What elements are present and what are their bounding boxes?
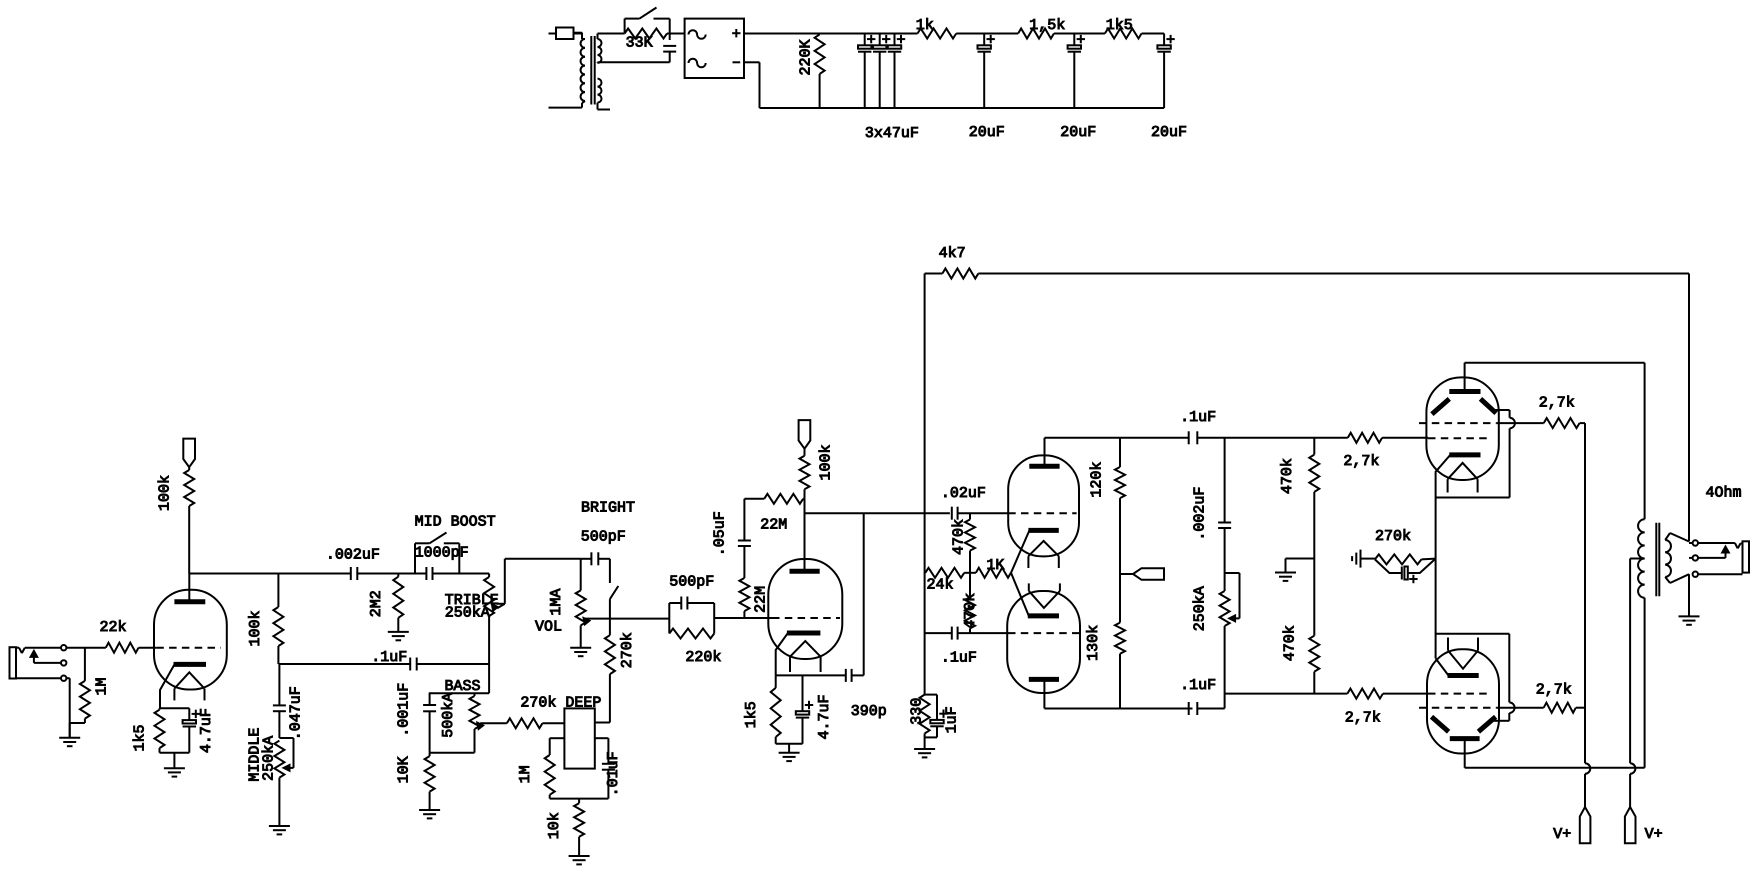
label .1uF upper out xyxy=(1180,409,1216,426)
V4 beam-cathode wire xyxy=(1436,497,1510,499)
label 130k xyxy=(1085,625,1102,661)
label 3x47uF xyxy=(865,125,919,142)
bass wiper xyxy=(476,721,507,731)
svg-text:1k5: 1k5 xyxy=(743,701,760,728)
svg-text:10k: 10k xyxy=(546,812,563,839)
wire rail B xyxy=(585,618,669,620)
treble wiper xyxy=(491,603,505,613)
svg-text:1M: 1M xyxy=(94,677,111,695)
svg-text:.1uF: .1uF xyxy=(1180,677,1216,694)
label 390p xyxy=(851,703,887,720)
label 250kA middle xyxy=(261,736,278,781)
V4 beam plates xyxy=(1432,399,1496,414)
resistor 1K PI xyxy=(970,568,1011,578)
label .002uF xyxy=(326,546,380,563)
capacitor .01uF deep xyxy=(602,738,615,798)
label .02uF xyxy=(941,485,986,502)
speaker jack tip wire xyxy=(1698,543,1743,548)
V5 heater xyxy=(1448,638,1478,669)
svg-text:V+: V+ xyxy=(1553,826,1571,843)
svg-text:2,7k: 2,7k xyxy=(1539,394,1575,411)
svg-text:500pF: 500pF xyxy=(581,529,626,546)
svg-text:2,7k: 2,7k xyxy=(1536,682,1572,699)
V2 heater xyxy=(790,641,821,672)
coupling network box xyxy=(669,603,714,634)
svg-text:1000pF: 1000pF xyxy=(415,544,469,561)
V2 grid xyxy=(772,617,840,619)
potentiometer BASS 500kA xyxy=(470,693,480,753)
ground VOL xyxy=(570,648,591,656)
label .1uF PI lower xyxy=(941,650,977,667)
input jack sleeve contact circle xyxy=(61,676,66,681)
resistor 220K bleeder xyxy=(815,34,825,109)
transformer secondary HT xyxy=(598,34,670,64)
label 220K xyxy=(798,39,815,75)
resistor 2,7k lower grid xyxy=(1347,689,1428,699)
V3a cathode xyxy=(1011,530,1059,572)
label MIDDLE xyxy=(246,728,263,782)
svg-text:500kA: 500kA xyxy=(440,693,457,738)
label 500pF bright xyxy=(581,529,626,546)
wire cathode net top xyxy=(160,707,190,709)
wire V2 cathode bottom xyxy=(776,743,803,745)
svg-text:470k: 470k xyxy=(950,519,967,555)
transformer secondary heater xyxy=(598,79,611,110)
svg-text:VOL: VOL xyxy=(535,618,562,635)
resistor 470k output xyxy=(1309,438,1319,559)
wire jack to ground xyxy=(1688,574,1690,616)
V5 beam wire xyxy=(1435,634,1515,721)
label 4Ohm xyxy=(1706,485,1742,502)
label 1k5 V2 xyxy=(743,701,760,728)
V1a heater xyxy=(174,672,204,700)
capacitor 270k bypass xyxy=(1375,559,1436,584)
wire upper grid rail right xyxy=(1197,437,1348,439)
resistor 1,5k xyxy=(1018,29,1054,39)
resistor 2,7k upper grid xyxy=(1348,433,1428,443)
input jack spring arrow xyxy=(29,649,61,663)
label .002uF presence xyxy=(1191,487,1208,541)
svg-text:4k7: 4k7 xyxy=(939,245,966,262)
wire sleeve to ground xyxy=(66,678,69,738)
label 1k5 xyxy=(1106,17,1133,34)
svg-text:2M2: 2M2 xyxy=(368,590,385,617)
svg-text:390p: 390p xyxy=(851,703,887,720)
resistor 33K xyxy=(625,29,667,39)
speaker jack sleeve wire xyxy=(1698,573,1743,575)
speaker jack ring circle xyxy=(1693,555,1698,560)
resistor 10K bass xyxy=(425,753,435,810)
svg-text:4Ohm: 4Ohm xyxy=(1706,485,1742,502)
resistor 270k output xyxy=(1375,554,1436,564)
wire deep bottom xyxy=(550,798,609,800)
capacitor .02uF xyxy=(952,507,958,520)
wire .1uF rail xyxy=(278,663,489,665)
svg-text:1MA: 1MA xyxy=(548,589,565,616)
capacitor 500pF coupling xyxy=(681,597,687,610)
capacitor .002uF presence xyxy=(1218,438,1231,573)
resistor 1M input xyxy=(70,648,90,738)
V+ flag left xyxy=(1580,807,1591,843)
capacitor 4.7uF V1a xyxy=(183,708,200,753)
V5 beam plates xyxy=(1432,717,1496,732)
pentode V5 envelope xyxy=(1427,649,1499,753)
wire lower out jog xyxy=(1197,694,1347,709)
ground 10K bass xyxy=(419,810,440,818)
label 22M vertical xyxy=(753,586,770,613)
wire screen bus xyxy=(1585,423,1590,807)
label 250kA treble xyxy=(445,605,490,622)
ground V1a cathode xyxy=(164,753,185,777)
svg-text:470k: 470k xyxy=(1282,625,1299,661)
svg-text:.05uF: .05uF xyxy=(711,511,728,556)
bright switch xyxy=(610,559,618,599)
speaker jack tip stub xyxy=(1689,542,1693,544)
V3a heater xyxy=(1028,541,1058,568)
wire bridge minus xyxy=(744,62,760,108)
fuse F1 xyxy=(549,28,584,40)
triode V3b envelope xyxy=(1007,591,1080,693)
capacitor .001uF xyxy=(423,693,436,753)
resistor 330 xyxy=(920,695,930,749)
wire 33K to bridge xyxy=(667,33,685,35)
label 24k xyxy=(927,577,954,594)
label 4k7 xyxy=(939,245,966,262)
label 2M2 xyxy=(368,590,385,617)
label 2,7k upper grid xyxy=(1343,453,1379,470)
V3b heater xyxy=(1029,583,1060,608)
svg-text:.002uF: .002uF xyxy=(326,546,380,563)
resistor 470k PI lower xyxy=(965,573,975,633)
resistor 1k5 xyxy=(1105,29,1142,39)
label 2,7k upper screen xyxy=(1539,394,1575,411)
capacitor 47uF c xyxy=(888,34,905,109)
V3a grid xyxy=(1008,512,1076,514)
V3b cathode xyxy=(1011,573,1059,616)
svg-text:BRIGHT: BRIGHT xyxy=(581,500,635,517)
label 250kA presence xyxy=(1191,586,1208,631)
capacitor 4.7uF V2 xyxy=(796,675,813,743)
transformer core xyxy=(591,36,594,105)
svg-text:22k: 22k xyxy=(100,619,127,636)
svg-text:1k5: 1k5 xyxy=(1106,17,1133,34)
svg-text:470k: 470k xyxy=(1279,458,1296,494)
wire to 20uF b xyxy=(1054,33,1105,35)
ground PI tail xyxy=(914,749,935,757)
svg-text:1M: 1M xyxy=(517,765,534,783)
resistor 270k bright leg xyxy=(605,599,615,722)
resistor 270k deep xyxy=(507,718,565,728)
wire V4 plate rail xyxy=(1465,363,1645,520)
V+ flag right xyxy=(1625,807,1636,843)
label 1K PI xyxy=(986,557,1004,574)
capacitor 390p xyxy=(846,669,852,682)
label VOL xyxy=(535,618,562,635)
capacitor 47uF b xyxy=(873,34,890,109)
wire bass bottom xyxy=(430,752,475,754)
V4 control grid xyxy=(1428,437,1492,439)
wire NFB top rail xyxy=(978,273,1689,275)
capacitor .1uF lower out xyxy=(1189,702,1198,715)
svg-text:.001uF: .001uF xyxy=(395,683,412,737)
svg-text:250kA: 250kA xyxy=(261,736,278,781)
input jack sleeve wire xyxy=(16,677,61,679)
svg-text:V+: V+ xyxy=(1645,826,1663,843)
label 4.7uF V2 xyxy=(816,694,833,739)
label 20uF a xyxy=(969,124,1005,141)
capacitor .05uF xyxy=(738,499,751,578)
label 22k xyxy=(100,619,127,636)
capacitor .002uF xyxy=(351,567,358,580)
capacitor 20uF a xyxy=(978,34,995,109)
resistor 2,7k lower screen xyxy=(1496,703,1585,713)
capacitor .1uF PI lower xyxy=(952,627,958,640)
wire PI upper plate rail xyxy=(1045,437,1189,439)
label 100k V1a xyxy=(157,475,174,511)
wire NFB down xyxy=(1688,274,1690,542)
label 20uF b xyxy=(1060,124,1096,141)
wire 390p horizontal xyxy=(776,674,864,676)
capacitor .047uF xyxy=(273,664,286,738)
label 270k DEEP xyxy=(520,694,601,711)
triode V1a envelope xyxy=(154,590,227,690)
V5 control grid xyxy=(1428,693,1492,695)
input jack tip wire xyxy=(16,648,61,653)
potentiometer 250kA presence xyxy=(1220,573,1240,694)
resistor 24k xyxy=(925,568,970,578)
label 500kA xyxy=(440,693,457,738)
wire deep inner left xyxy=(550,737,565,739)
resistor 22M horizontal xyxy=(744,494,804,504)
speaker jack sleeve circle xyxy=(1693,572,1698,577)
svg-text:22M: 22M xyxy=(753,586,770,613)
svg-text:2,7k: 2,7k xyxy=(1345,710,1381,727)
label 500pF coupling xyxy=(669,574,714,591)
mains input wire L xyxy=(549,33,557,35)
triode V3a envelope xyxy=(1008,455,1079,556)
svg-text:.02uF: .02uF xyxy=(941,485,986,502)
V2 cathode xyxy=(776,633,821,675)
resistor 1M deep xyxy=(545,738,555,798)
wire deep inner right xyxy=(595,737,609,739)
label 33K xyxy=(626,35,653,52)
wire rail A to treble xyxy=(433,573,490,575)
label BRIGHT xyxy=(581,500,635,517)
ground 470k xyxy=(1275,573,1296,581)
output transformer primary xyxy=(1638,519,1645,597)
label 22M xyxy=(760,516,787,533)
resistor 120k xyxy=(1115,438,1125,574)
label 1M input xyxy=(94,677,111,695)
capacitor 390p branch xyxy=(863,513,865,675)
label 1k xyxy=(916,17,934,34)
label 470k PI lower xyxy=(962,593,979,629)
svg-text:1k5: 1k5 xyxy=(132,724,149,751)
V4 beam wire xyxy=(1494,410,1515,498)
triode V2 envelope xyxy=(768,559,842,659)
label 270k output xyxy=(1375,528,1411,545)
bridge rectifier xyxy=(685,19,744,78)
svg-text:.01uF: .01uF xyxy=(605,751,622,796)
secondary bottom lead xyxy=(1665,574,1689,583)
label 1k5 V1a xyxy=(132,724,149,751)
label V+ right xyxy=(1645,826,1663,843)
label 100k V2 xyxy=(817,444,834,480)
label .1uF lower out xyxy=(1180,677,1216,694)
resistor 470k PI upper xyxy=(965,513,975,573)
svg-text:20uF: 20uF xyxy=(1060,124,1096,141)
capacitor 500pF bright xyxy=(581,552,610,565)
svg-text:24k: 24k xyxy=(927,577,954,594)
treble wiper wire xyxy=(497,559,581,604)
speaker jack spring arrow xyxy=(1698,545,1731,558)
ground speaker xyxy=(1679,616,1700,624)
label TRIBLE xyxy=(445,592,499,609)
input jack ring contact circle xyxy=(61,660,66,665)
label .001uF xyxy=(395,683,412,737)
resistor 130k xyxy=(1115,574,1125,709)
capacitor 1uF PI xyxy=(925,695,948,738)
deep switch box xyxy=(564,708,594,768)
speaker jack body xyxy=(1743,541,1750,572)
svg-text:1,5k: 1,5k xyxy=(1029,17,1065,34)
label .1uF tone xyxy=(371,649,407,666)
svg-text:33K: 33K xyxy=(626,35,653,52)
svg-text:22M: 22M xyxy=(760,516,787,533)
label 1MA xyxy=(548,589,565,616)
svg-text:1k: 1k xyxy=(916,17,934,34)
ground 2M2 xyxy=(388,632,409,640)
V1a plate xyxy=(174,574,205,602)
label V+ left xyxy=(1553,826,1571,843)
V5 screen grid xyxy=(1419,707,1496,709)
wire NFB vertical xyxy=(924,274,926,695)
resistor 4k7 xyxy=(925,269,979,279)
B+ flag PI xyxy=(1120,568,1164,580)
label 470k output lower xyxy=(1282,625,1299,661)
label 100k slope xyxy=(247,610,264,646)
capacitor 20uF b xyxy=(1068,34,1085,109)
label 330 xyxy=(909,698,926,725)
resistor 2,7k upper screen xyxy=(1496,418,1585,428)
capacitor .1uF tone xyxy=(410,658,417,671)
svg-text:MID BOOST: MID BOOST xyxy=(415,514,496,531)
vol wiper xyxy=(582,616,591,626)
svg-text:250kA: 250kA xyxy=(445,605,490,622)
label 10k deep xyxy=(546,812,563,839)
wire deep right xyxy=(595,722,610,724)
input jack body xyxy=(10,647,17,678)
V3a plate xyxy=(1029,438,1059,467)
resistor 1k xyxy=(918,29,957,39)
wire plate rail A xyxy=(189,573,350,575)
wire PI lower plate rail xyxy=(1044,708,1192,710)
supply flag V1a xyxy=(183,439,195,468)
V4 heater xyxy=(1448,463,1478,493)
resistor 10k deep xyxy=(574,799,584,856)
capacitor 1000pF xyxy=(426,567,432,580)
svg-text:100k: 100k xyxy=(817,444,834,480)
wire tip to grid node xyxy=(66,647,106,649)
V5 plate xyxy=(1450,739,1480,768)
resistor 470k output lower xyxy=(1309,559,1319,694)
svg-text:250kA: 250kA xyxy=(1191,586,1208,631)
label 1M deep xyxy=(517,765,534,783)
ground 10k deep xyxy=(569,856,590,864)
resistor 1k5 V1a xyxy=(155,708,165,753)
capacitor 47uF a xyxy=(858,34,875,109)
label 2,7k lower screen xyxy=(1536,682,1572,699)
svg-text:270k: 270k xyxy=(1375,528,1411,545)
potentiometer MIDDLE 250kA xyxy=(274,738,293,826)
mid boost switch xyxy=(415,533,459,574)
svg-text:.1uF: .1uF xyxy=(371,649,407,666)
potentiometer VOL 1MA xyxy=(576,559,586,648)
svg-text:500pF: 500pF xyxy=(669,574,714,591)
svg-text:270k: 270k xyxy=(619,632,636,668)
svg-text:20uF: 20uF xyxy=(1151,124,1187,141)
V4 plate xyxy=(1449,363,1480,392)
label 20uF c xyxy=(1151,124,1187,141)
output transformer secondary xyxy=(1665,540,1671,577)
svg-text:130k: 130k xyxy=(1085,625,1102,661)
label .05uF xyxy=(711,511,728,556)
wire rail D xyxy=(925,632,1008,634)
V4 cathode xyxy=(1436,455,1481,498)
label 470k output upper xyxy=(1279,458,1296,494)
wire cathode bus upper xyxy=(1435,498,1437,559)
svg-text:10K: 10K xyxy=(395,756,412,783)
speaker jack ring stub xyxy=(1689,557,1693,559)
label .01uF xyxy=(605,751,622,796)
ground middle pot xyxy=(269,826,290,834)
wire cathode bus lower xyxy=(1435,559,1437,659)
resistor 1k5 V2 xyxy=(771,675,781,743)
wire 22k to tube grid xyxy=(139,647,157,649)
wire rail A mid xyxy=(357,573,426,575)
wire to 20uF c xyxy=(1142,33,1165,35)
resistor 100k V1a plate xyxy=(184,467,194,573)
svg-text:20uF: 20uF xyxy=(969,124,1005,141)
OT core xyxy=(1656,523,1659,597)
svg-text:BASS: BASS xyxy=(445,678,481,695)
power transformer T1 primary xyxy=(549,33,586,108)
ground input xyxy=(59,738,80,746)
ground V2 cathode xyxy=(779,744,800,761)
resistor 100k slope xyxy=(273,574,283,665)
V2 plate xyxy=(790,499,820,571)
label MID BOOST xyxy=(415,514,496,531)
svg-text:120k: 120k xyxy=(1088,462,1105,498)
wire ground rail bottom xyxy=(760,107,1165,109)
resistor 22M vertical xyxy=(739,578,749,618)
svg-text:.002uF: .002uF xyxy=(1191,487,1208,541)
label 10K bass xyxy=(395,756,412,783)
wire cathode net bottom xyxy=(160,752,190,754)
label 1,5k xyxy=(1029,17,1065,34)
side ground 270k xyxy=(1352,550,1375,568)
svg-text:3x47uF: 3x47uF xyxy=(865,125,919,142)
resistor 22k xyxy=(106,643,139,653)
resistor 2M2 xyxy=(393,574,403,632)
svg-text:2,7k: 2,7k xyxy=(1343,453,1379,470)
label .047uF xyxy=(287,686,304,740)
svg-text:4.7uF: 4.7uF xyxy=(198,708,215,753)
input jack tip contact circle xyxy=(61,645,66,650)
supply flag V2 xyxy=(799,420,811,449)
V3b grid xyxy=(1008,632,1080,634)
speaker jack tip circle xyxy=(1693,540,1698,545)
